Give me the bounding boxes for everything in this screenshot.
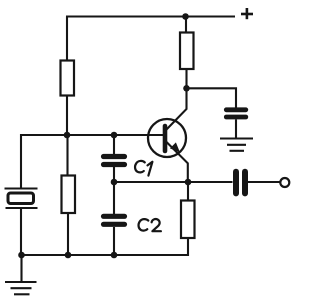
emitter arrow <box>170 142 180 152</box>
wire: bottom rail <box>21 254 188 256</box>
wire: V+ top rail <box>66 15 235 17</box>
wire: emitter node to R4 <box>187 182 189 201</box>
junction: V+ rail and R2 <box>182 13 189 20</box>
wire: collector node to bypass capacitor <box>187 88 237 108</box>
wire: R2 to collector node <box>185 69 187 88</box>
wire: bypass capacitor to ground <box>235 119 237 138</box>
crystal X1 body <box>8 193 34 204</box>
junction: C2 on bottom rail <box>111 252 118 259</box>
wire: emitter rail to C2 <box>113 182 115 214</box>
resistor R4 emitter <box>181 201 195 239</box>
junction: C1 on base rail <box>111 132 118 139</box>
wire: C2 to bottom rail <box>113 227 115 255</box>
wire: top rail to R2 <box>185 17 187 34</box>
ground right <box>220 139 253 151</box>
crystal X1 lower plate <box>6 207 38 209</box>
wire: crystal upper lead <box>20 134 22 188</box>
resistor R1 upper bias divider <box>61 61 75 96</box>
capacitor C2 lower plate <box>104 222 125 227</box>
label C2 <box>139 219 161 231</box>
capacitor C1 upper plate <box>104 154 125 159</box>
transistor Q1 base bar <box>163 126 168 151</box>
wire: coupling capacitor to output terminal <box>248 181 280 183</box>
capacitor C1 lower plate <box>104 162 125 167</box>
ground left <box>5 282 37 294</box>
resistor R2 collector load <box>180 33 194 70</box>
wire: left drop from top rail to R1 <box>66 17 68 62</box>
wire: base rail to C1 <box>113 135 115 154</box>
junction: R3 on bottom rail <box>65 252 72 259</box>
wire: base rail <box>21 134 164 136</box>
wire: C1 to emitter rail <box>113 167 115 182</box>
capacitor C5 coupling left plate <box>233 172 239 194</box>
wire: R3 to bottom rail <box>67 213 69 255</box>
wire: emitter lead <box>166 141 188 182</box>
wire: crystal lower lead <box>20 208 22 255</box>
capacitor C4 bypass upper plate <box>226 107 246 112</box>
wire: R4 to bottom rail <box>187 238 189 256</box>
capacitor C5 coupling right plate <box>242 172 248 194</box>
wire: emitter rail <box>114 181 233 183</box>
wire: stub to left ground <box>20 255 22 281</box>
junction: C1 C2 emitter rail <box>111 179 118 186</box>
wire: collector lead <box>166 88 187 130</box>
crystal X1 upper plate <box>5 187 38 189</box>
output terminal <box>280 178 289 187</box>
wire: R1 bottom to base rail <box>66 96 68 136</box>
label C1 <box>135 161 152 176</box>
wire: base rail to R3 <box>66 135 68 176</box>
junction: R3 on base rail <box>64 132 71 139</box>
junction: crystal and ground on bottom rail <box>18 252 25 259</box>
label plus V supply <box>241 8 253 19</box>
capacitor C2 upper plate <box>104 214 125 219</box>
resistor R3 lower bias divider <box>62 176 76 214</box>
junction: emitter node <box>185 179 192 186</box>
transistor Q1 body <box>148 119 186 157</box>
junction: collector node <box>183 85 190 92</box>
capacitor C4 bypass lower plate <box>226 115 246 120</box>
